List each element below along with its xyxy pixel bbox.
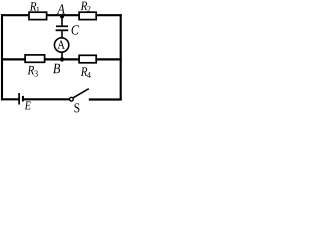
capacitor C top plate: [56, 25, 68, 27]
label node A: [57, 4, 65, 13]
resistor R2 box: [79, 12, 96, 19]
label R3 'R': [28, 66, 35, 75]
node B junction dot: [60, 57, 64, 61]
ammeter A circle: [54, 38, 68, 52]
wire ammeter to node B: [61, 52, 63, 60]
label R1 'R': [30, 2, 37, 11]
label switch S: [75, 103, 80, 112]
wire right vertical: [120, 14, 122, 100]
resistor R1 box: [29, 12, 47, 19]
resistor R4 box: [79, 55, 96, 63]
wire capacitor to ammeter: [61, 31, 63, 38]
label R4 'R': [81, 67, 88, 76]
label R2 'R': [81, 2, 88, 11]
wire bottom middle: battery to switch: [24, 98, 70, 100]
label capacitor C: [72, 25, 79, 34]
ammeter letter A: [57, 41, 65, 49]
label R3 sub 3: [34, 71, 37, 77]
node A junction dot: [60, 14, 64, 18]
label battery E: [25, 102, 31, 110]
wire top horizontal: [1, 14, 122, 16]
label R1 sub 1: [37, 7, 40, 13]
resistor R3 box: [25, 55, 44, 62]
label R2 sub 2: [87, 6, 90, 12]
battery E long plate: [18, 93, 20, 105]
switch S pivot circle: [70, 97, 74, 101]
switch S blade: [73, 89, 89, 98]
battery E short plate: [22, 96, 24, 102]
wire middle horizontal: [1, 58, 122, 60]
label R4 sub 4: [87, 72, 91, 78]
wire bottom left: corner to battery: [1, 98, 18, 100]
label node B: [53, 64, 60, 74]
capacitor C bottom plate: [56, 29, 69, 31]
wire left vertical: [1, 14, 3, 100]
wire center branch from node A to capacitor: [61, 15, 63, 26]
wire bottom right: switch to corner: [89, 98, 122, 100]
